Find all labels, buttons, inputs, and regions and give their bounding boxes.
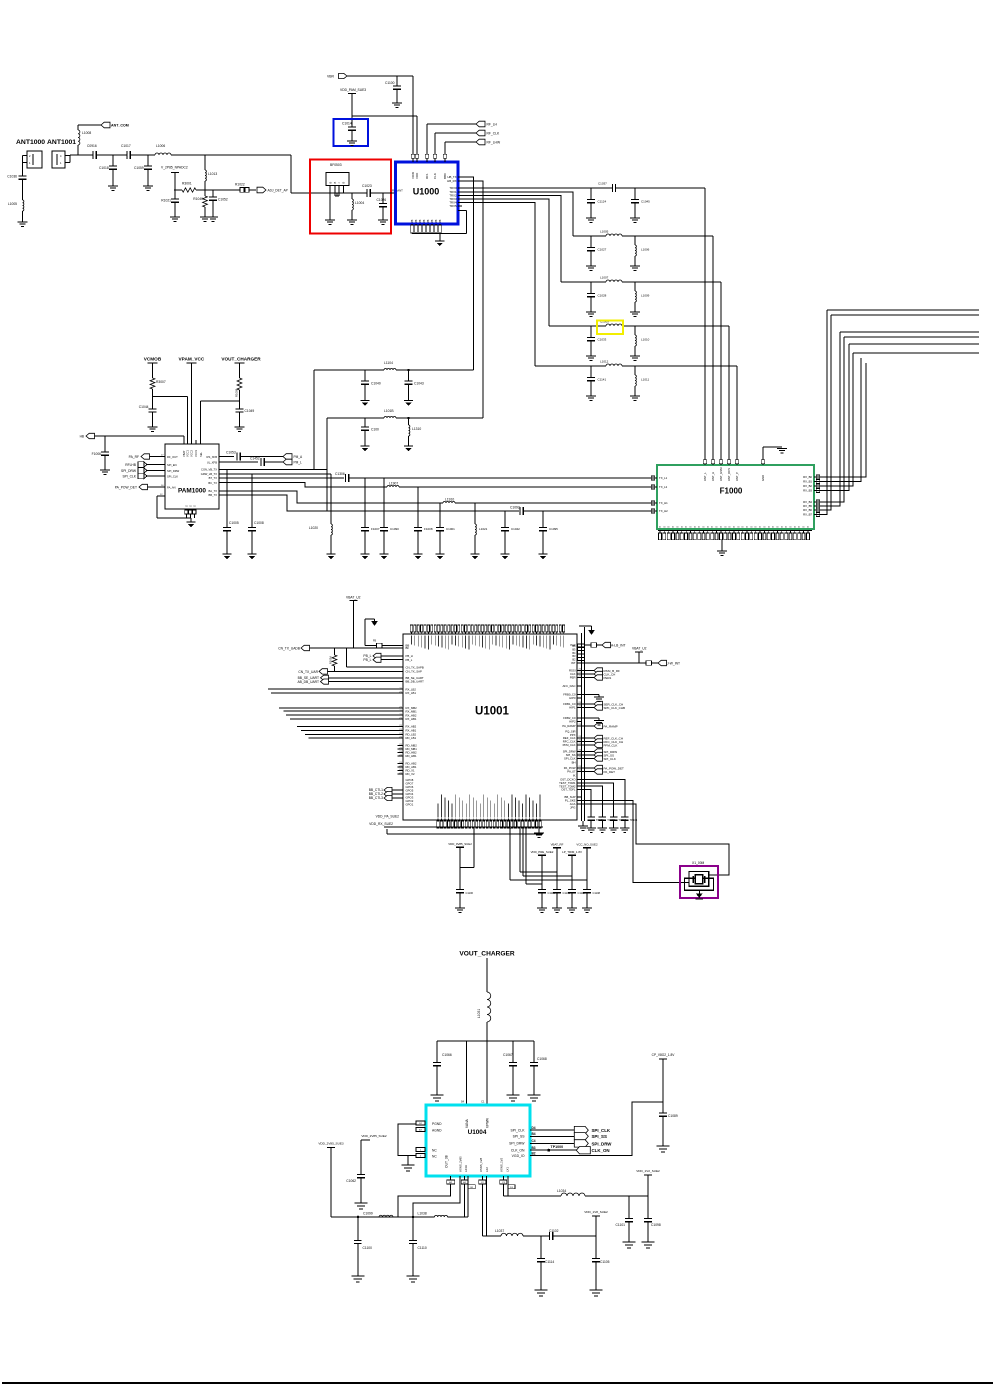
U1000 bottom pin (438, 219, 442, 233)
ground (696, 894, 704, 900)
svg-text:SPI_DRW: SPI_DRW (592, 1141, 613, 1146)
capacitor C1102 (549, 1229, 596, 1240)
wire (581, 633, 583, 821)
U1001 left pin stub (398, 748, 404, 750)
U1001 pin label CN_TX_SAPB (406, 665, 424, 669)
node (147, 155, 149, 166)
ground (598, 828, 608, 832)
U1004 right pin CLK_ON (511, 1146, 536, 1153)
U1001 bottom pin (486, 798, 488, 829)
wire fan (290, 718, 403, 720)
capacitor C1005 (223, 469, 239, 554)
ground (594, 697, 604, 701)
U1000 top pin CLK (433, 154, 437, 179)
wire (704, 188, 706, 460)
wire (460, 828, 474, 868)
PAM1000 top pin SEL (199, 452, 203, 457)
wire (520, 828, 557, 872)
U1004 pin VSNS_1V8 (479, 1157, 483, 1172)
wire (313, 370, 315, 469)
wire TRX2 (462, 196, 561, 283)
svg-text:PA_RAMP: PA_RAMP (562, 724, 575, 728)
wire (814, 332, 979, 506)
U1001 bottom pin (437, 804, 439, 829)
U1001 left pin GPO3 (406, 796, 414, 800)
wire (582, 821, 584, 826)
U1004 bottom pin C2 (479, 1176, 486, 1236)
wire (814, 358, 861, 482)
capacitor C1092 (510, 506, 657, 515)
svg-text:BB_CTL3: BB_CTL3 (369, 796, 383, 800)
ground (404, 401, 413, 406)
svg-text:L1013: L1013 (208, 172, 217, 176)
svg-text:C1141: C1141 (598, 378, 607, 382)
inductor L1008 (78, 130, 91, 145)
U1001 bottom pin (483, 795, 485, 829)
net flag RFLHB (125, 462, 176, 467)
svg-text:C1095: C1095 (549, 527, 558, 531)
F1000 bottom pin (759, 526, 763, 540)
svg-text:TX_H2: TX_H2 (659, 509, 668, 513)
U1001 bottom pin (447, 801, 449, 829)
svg-text:C1100: C1100 (385, 81, 395, 85)
U1001 left pin RD_HB1 (399, 754, 417, 758)
PAM1000 pin UL_XFB (207, 461, 258, 465)
svg-text:C1045: C1045 (641, 200, 650, 204)
U1001 left pin GPO2 (406, 799, 414, 803)
F1000 bottom pin (711, 526, 715, 540)
wire (577, 801, 689, 883)
svg-text:PA_RF: PA_RF (129, 455, 139, 459)
U1001 top pin (512, 625, 514, 645)
PAM1000 pin RS_XFB (207, 455, 234, 459)
svg-text:V_2P85_NPADC2: V_2P85_NPADC2 (161, 166, 188, 170)
svg-text:R3001: R3001 (182, 182, 192, 186)
ground (586, 828, 596, 832)
F1000 bottom pin (789, 526, 793, 540)
wire (219, 491, 443, 503)
svg-text:VBAT_RF: VBAT_RF (551, 843, 564, 847)
net flag SPI_CLK (122, 473, 178, 478)
svg-text:VSNS_1V2: VSNS_1V2 (500, 1157, 504, 1172)
svg-text:VOUT_CHARGER: VOUT_CHARGER (221, 357, 261, 362)
U1001 top pin (559, 625, 561, 647)
ground (567, 908, 577, 912)
U1001 top pin (431, 625, 433, 645)
U1001 bottom pin (525, 795, 527, 829)
U1001 top pin (410, 625, 412, 645)
U1000 top pin VDW (411, 154, 415, 179)
capacitor C1036 (7, 175, 26, 201)
capacitor C1100 (354, 1216, 372, 1276)
U1001 top pin (481, 625, 483, 648)
capacitor C1027 (587, 236, 606, 266)
svg-text:C1: C1 (481, 1100, 485, 1104)
svg-text:VCMOB: VCMOB (144, 357, 162, 362)
svg-text:RF1: RF1 (425, 173, 429, 179)
U1001 left pin stub (398, 752, 404, 754)
F1000 bottom pin (763, 526, 767, 540)
U1001 right pin label TEST_TDM1 (559, 781, 576, 785)
capacitor C1053 (226, 451, 283, 461)
ground (609, 828, 619, 832)
svg-text:C1027: C1027 (598, 248, 607, 252)
svg-text:PB_L: PB_L (406, 658, 413, 662)
svg-text:GND: GND (761, 475, 765, 481)
U1001 right pin label HIP0 (569, 696, 576, 700)
svg-text:VGD_IO: VGD_IO (512, 1154, 525, 1158)
F1000 right pin RX_B6 (803, 508, 820, 512)
svg-text:JPG: JPG (570, 806, 575, 810)
wire fan (305, 733, 403, 735)
svg-text:C1017: C1017 (121, 144, 131, 148)
wire (335, 186, 339, 197)
svg-text:SPI_DRW: SPI_DRW (121, 469, 137, 473)
U1004 bottom pin D3 (508, 1176, 515, 1196)
F1000 top pin ANT_DCS (727, 460, 731, 481)
power label VDD_2V85_SUE2b (361, 1134, 387, 1175)
U1001 right pin label PER (570, 676, 576, 680)
capacitor C1062 (346, 1175, 365, 1204)
svg-text:B: B (342, 182, 346, 184)
svg-text:GPO1: GPO1 (406, 803, 414, 807)
power label CP_V8O2_1.8V (652, 1053, 676, 1113)
wire (720, 282, 722, 460)
svg-text:TX_H1: TX_H1 (659, 501, 668, 505)
capacitor TP101 (587, 817, 604, 828)
wire (538, 828, 540, 833)
wire (712, 236, 714, 460)
U1001 right pin label IK (573, 774, 576, 778)
power label VBAT_RF (551, 843, 564, 890)
ground arrow (579, 626, 595, 635)
wire (577, 697, 581, 699)
ground (534, 833, 544, 837)
wire (398, 1124, 416, 1156)
ferrite bead + net flag A-LB_INT (585, 642, 626, 647)
U1001 left pin GPO5 (406, 789, 414, 793)
inductor L1031 (477, 992, 491, 1105)
ground (247, 554, 256, 559)
ground (413, 554, 422, 559)
wire (577, 783, 614, 817)
U1001 top pin (437, 625, 439, 647)
U1000 right pin TRX2 (449, 194, 462, 198)
annotation box red (310, 160, 391, 234)
wire (65, 155, 78, 163)
svg-text:C1114: C1114 (545, 1260, 554, 1264)
svg-text:C1028: C1028 (598, 294, 607, 298)
PAM1000 top pin VBAT (182, 450, 186, 457)
svg-text:SPI_CLK: SPI_CLK (592, 1128, 611, 1133)
svg-text:SPI_CLK: SPI_CLK (604, 757, 616, 761)
antenna ANT1000 label (16, 139, 45, 146)
F1000 right pin RX_B2 (803, 484, 820, 488)
power label VCMOB (144, 357, 162, 379)
power label VBAT_U2b (632, 647, 647, 664)
U1004 pin LX2 (485, 1167, 489, 1172)
ground (630, 266, 640, 270)
U1001 right pin label FRB2_C0 (563, 716, 576, 720)
inductor L1005 (8, 200, 24, 222)
capacitor C1049 (236, 401, 255, 427)
regulator U1004 body (426, 1105, 530, 1176)
U1004 pin VANA (465, 1118, 469, 1128)
net flag BB_SE_UART (298, 675, 403, 680)
ground (402, 1165, 415, 1171)
wire (814, 310, 979, 515)
wire (249, 189, 256, 191)
inductor L1011 (635, 366, 649, 396)
U1000 bottom pin (430, 219, 434, 233)
F1000 bottom pin (802, 526, 806, 540)
ground (360, 446, 369, 451)
U1001 top pin (475, 625, 477, 646)
svg-text:CON_VB_TX: CON_VB_TX (201, 468, 217, 472)
net flag CN_TX_UADB (278, 645, 403, 650)
ground (657, 1146, 670, 1152)
svg-text:CN_TX_UADB: CN_TX_UADB (278, 647, 301, 651)
ground (777, 447, 787, 453)
PAM1000 bottom pin (185, 505, 189, 518)
svg-text:SPK_CLK_CHB: SPK_CLK_CHB (604, 706, 626, 710)
F1000 bottom pin (793, 526, 797, 540)
svg-text:OUT_3B: OUT_3B (445, 1154, 449, 1168)
svg-text:CP_V8O2_1.8V: CP_V8O2_1.8V (652, 1053, 676, 1057)
U1001 bottom pin (476, 801, 478, 829)
svg-text:RX_B3: RX_B3 (803, 489, 812, 493)
U1001 left pin RX_MB2 (399, 706, 417, 710)
capacitor C1101 (616, 1196, 633, 1242)
capacitor C1110 (409, 1216, 427, 1276)
wire fan (309, 737, 404, 739)
net flag PA_RAMP (577, 723, 618, 728)
U1001 top pin (485, 625, 487, 649)
svg-text:ANT_P: ANT_P (735, 472, 739, 481)
wire (482, 1235, 501, 1237)
inductor L1907 (387, 482, 657, 488)
svg-text:TP103: TP103 (618, 818, 626, 822)
capacitor F1008 (414, 487, 433, 554)
svg-text:C1049: C1049 (245, 409, 255, 413)
F1000 bottom pin (676, 526, 680, 540)
wire (413, 1176, 460, 1217)
U1004 pin NC1 (416, 1148, 437, 1153)
U1001 bottom pin (462, 801, 464, 829)
inductor L1009 (635, 282, 650, 312)
resistor R3007 (150, 378, 166, 396)
F1000 bottom pin (715, 526, 719, 540)
wire (347, 648, 403, 667)
power label VDD_1V2_SUE2 (636, 1169, 660, 1196)
svg-text:AB_DB_UART: AB_DB_UART (297, 680, 319, 684)
capacitor TP104 (621, 817, 638, 828)
svg-text:RX_B1: RX_B1 (803, 480, 812, 484)
capacitor C1028 (587, 282, 606, 312)
capacitor C1045 (631, 188, 650, 218)
ground (18, 222, 28, 226)
capacitor C0916 (87, 144, 97, 159)
ground (590, 1290, 603, 1296)
U1004 bottom pin A2 (447, 1176, 455, 1184)
U1001 top pin (461, 625, 463, 648)
F1000 bottom pin (750, 526, 754, 540)
U1001 right pin label OST_TDFL (561, 788, 576, 792)
U1001 right pin label INT (571, 661, 576, 665)
U1000 bottom pin (410, 219, 414, 233)
U1001 bottom pin (507, 804, 509, 829)
net flag CN_TX_UAR (298, 669, 403, 674)
F1000 left pin TX_L2 (651, 485, 667, 489)
svg-text:L1910: L1910 (445, 498, 454, 502)
svg-text:PM_L: PM_L (294, 461, 303, 465)
F1000 bottom pin (719, 526, 723, 540)
svg-text:L1037: L1037 (495, 1229, 504, 1233)
svg-text:VCC1: VCC1 (186, 450, 190, 457)
svg-text:C1452: C1452 (250, 457, 260, 461)
wire (814, 353, 979, 486)
net flag CLK_CH (577, 671, 615, 676)
svg-text:L1005: L1005 (600, 230, 609, 234)
ground (392, 103, 402, 107)
capacitor C1006 (92, 436, 109, 470)
svg-text:PA0: PA0 (570, 643, 576, 647)
wire (698, 890, 700, 893)
capacitor C1067 (503, 1041, 517, 1095)
svg-text:L1010: L1010 (641, 338, 650, 342)
svg-text:VDD_PA_SUE2: VDD_PA_SUE2 (376, 815, 400, 819)
node (112, 155, 114, 166)
inductor L1310 (407, 417, 421, 446)
ground (586, 218, 596, 222)
U1001 left pin GPO7 (406, 782, 414, 786)
wire (530, 1102, 663, 1156)
svg-text:RFLHB: RFLHB (125, 463, 137, 467)
svg-text:PA_RAMP: PA_RAMP (604, 724, 618, 728)
svg-text:L1005: L1005 (8, 202, 17, 206)
svg-text:C1106: C1106 (466, 891, 474, 895)
U1004 pin NC2 (416, 1154, 437, 1159)
U1001 top pin (458, 625, 460, 647)
capacitor C1043 (405, 369, 424, 401)
U1001 pin label PB_H (406, 654, 413, 658)
ground (630, 218, 640, 222)
U1001 top pin (478, 625, 480, 647)
U1001 top pin (556, 625, 558, 646)
U1001 top pin (441, 625, 443, 648)
svg-text:C1110: C1110 (418, 1246, 427, 1250)
U1001 bottom pin (514, 798, 516, 829)
svg-text:C100: C100 (371, 428, 379, 432)
PAM1000 bottom pin (189, 505, 193, 518)
capacitor C1106 (456, 890, 473, 909)
F1000 bottom pin (737, 526, 741, 540)
PAM1000 top pin VCC1 (186, 450, 190, 457)
U1000 right pin HB_RX (447, 179, 462, 183)
svg-text:L1907: L1907 (389, 482, 398, 486)
svg-text:LX1: LX1 (506, 1167, 510, 1172)
U1001 left pin RX_LB1 (399, 691, 416, 695)
ground (355, 1203, 368, 1209)
net flag SPI_SS bottom (574, 1133, 607, 1140)
crystal X1000 (685, 861, 715, 890)
U1004 pin VSNS_2V85 (459, 1156, 463, 1172)
F1000 top pin ANT_GSM (719, 460, 723, 481)
svg-text:SPI_EN: SPI_EN (167, 463, 177, 467)
svg-text:L1009: L1009 (641, 294, 650, 298)
capacitor C1018 (99, 166, 117, 186)
U1004 right pin SPI_CLK (511, 1126, 536, 1133)
capacitor C1052 (209, 190, 228, 217)
wire (314, 369, 384, 371)
U1001 right pin label JPG (570, 806, 575, 810)
power label VOUT_CHARGER bottom (459, 951, 515, 993)
wire rail (437, 1040, 534, 1042)
svg-text:PER1: PER1 (604, 676, 612, 680)
svg-text:VCC3: VCC3 (194, 450, 198, 457)
U1001 bottom pin (532, 801, 534, 829)
wire (219, 483, 387, 487)
ground (143, 186, 153, 190)
svg-text:C1001: C1001 (446, 527, 455, 531)
U1001 bottom pin (539, 795, 541, 829)
U1001 top pin (444, 625, 446, 649)
U1001 top pin (515, 625, 517, 646)
net flag ADJ_DET_AP (257, 187, 288, 193)
svg-text:B2: B2 (532, 1152, 536, 1156)
wire (526, 828, 542, 884)
F1000 bottom pin (724, 526, 728, 540)
svg-text:NC: NC (432, 1149, 437, 1153)
ground (528, 1095, 541, 1101)
wire rail (387, 829, 543, 834)
power label VDD_PRE_SUE2 (531, 850, 554, 890)
ground (642, 1242, 655, 1248)
U1004 pin OUT_3B (445, 1154, 449, 1168)
F1000 right pin RX_B7 (803, 513, 820, 517)
ground (351, 1276, 364, 1282)
capacitor C1040 (361, 370, 381, 401)
F1000 bottom pin (798, 526, 802, 540)
svg-text:RX_HB1: RX_HB1 (406, 717, 417, 721)
U1001 right pin label REF_CLK (563, 736, 576, 740)
svg-text:C0916: C0916 (87, 144, 97, 148)
U1001 bottom pin (504, 801, 506, 829)
U1000 bottom pin (426, 219, 430, 233)
wire (326, 192, 367, 194)
svg-text:L1012: L1012 (600, 360, 609, 364)
svg-text:RF_LHW: RF_LHW (487, 141, 501, 145)
U1004 bottom pin B1 (468, 1176, 475, 1190)
U1004 bottom pin A1 (461, 1176, 468, 1217)
transistor BF0503 (326, 163, 349, 186)
svg-text:CN_TX_SAP: CN_TX_SAP (406, 670, 422, 674)
inductor C1099 (363, 1212, 393, 1218)
svg-text:B: B (329, 182, 333, 184)
net flag PM_L (283, 459, 302, 465)
svg-text:C1092: C1092 (510, 506, 520, 510)
ground arrow (365, 619, 378, 646)
net flag PM_A (283, 454, 303, 460)
svg-text:NC: NC (432, 1155, 437, 1159)
svg-text:U1001: U1001 (475, 706, 509, 718)
wire (407, 1156, 409, 1166)
inductor L1910 (443, 498, 657, 504)
ground (594, 721, 604, 725)
svg-text:G: G (190, 505, 193, 507)
filter F1000 body (657, 465, 814, 529)
capacitor TP103 (610, 817, 627, 828)
